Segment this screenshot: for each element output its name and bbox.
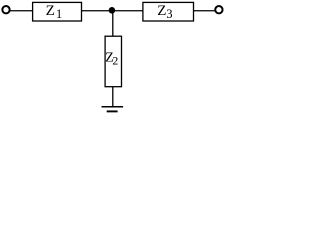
wire: node to Z3: [114, 10, 143, 12]
svg-text:2: 2: [112, 53, 118, 67]
terminal T2 (right output port): [215, 6, 222, 13]
ground: [102, 107, 124, 112]
wire: Z2 to ground: [112, 87, 114, 107]
svg-text:3: 3: [166, 7, 172, 21]
terminal T1 (left input port): [2, 6, 9, 13]
impedance Z3 (series box): [143, 2, 194, 21]
svg-text:Z: Z: [157, 3, 166, 19]
node junction dot: [109, 7, 116, 14]
svg-text:1: 1: [56, 7, 62, 21]
wire: left terminal to Z1: [10, 10, 33, 12]
svg-text:Z: Z: [46, 3, 55, 19]
impedance Z2 (shunt box): [105, 36, 121, 86]
impedance Z1 (series box): [33, 2, 82, 21]
wire: node down to Z2: [112, 11, 114, 36]
wire: Z3 to right terminal: [194, 10, 216, 12]
wire: Z1 to node: [82, 10, 111, 12]
